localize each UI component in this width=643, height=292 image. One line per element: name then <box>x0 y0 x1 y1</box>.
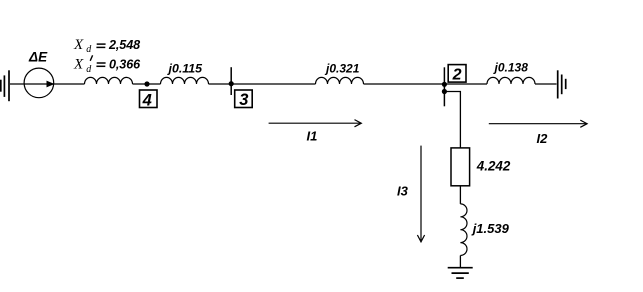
svg-text:2: 2 <box>452 67 462 84</box>
svg-text:j0.115: j0.115 <box>167 62 204 76</box>
svg-text:X: X <box>73 37 84 53</box>
svg-text:I2: I2 <box>537 131 549 146</box>
svg-text:4: 4 <box>142 92 152 110</box>
svg-text:4.242: 4.242 <box>476 158 511 173</box>
svg-text:X: X <box>73 57 84 73</box>
svg-text:j0.321: j0.321 <box>324 61 360 75</box>
svg-text:0,366: 0,366 <box>109 58 141 72</box>
svg-text:3: 3 <box>239 91 248 109</box>
svg-text:2,548: 2,548 <box>108 38 140 52</box>
svg-text:I1: I1 <box>307 129 318 144</box>
svg-text:j1.539: j1.539 <box>471 221 510 236</box>
svg-text:j0.138: j0.138 <box>493 61 529 75</box>
svg-text:I3: I3 <box>397 184 409 199</box>
svg-text:ΔE: ΔE <box>28 50 48 65</box>
